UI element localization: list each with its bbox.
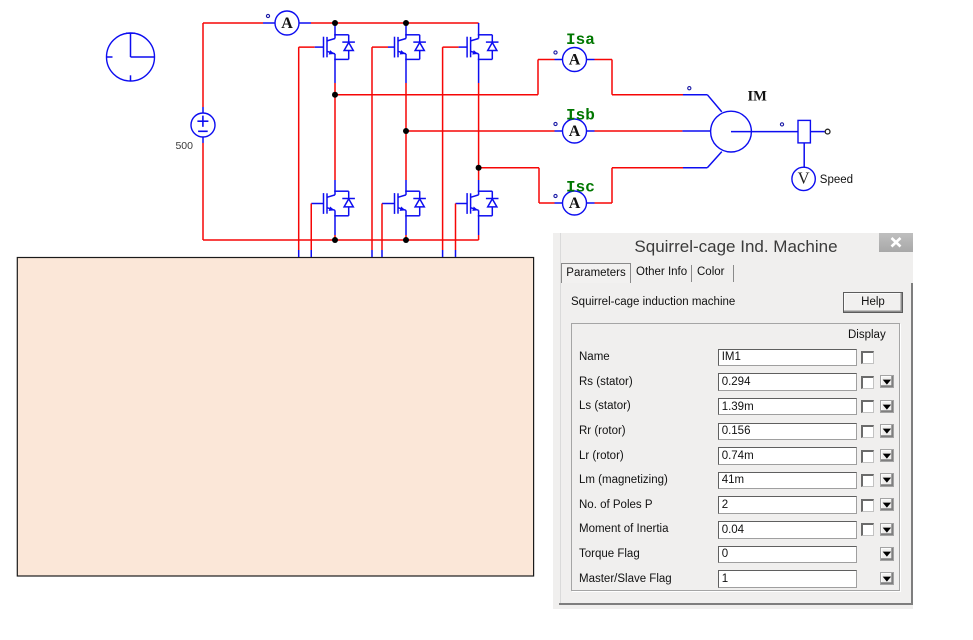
svg-text:Isa: Isa (566, 31, 595, 49)
svg-text:V: V (798, 169, 810, 188)
svg-text:Isb: Isb (566, 107, 595, 125)
svg-text:Isc: Isc (566, 179, 595, 197)
svg-text:A: A (569, 195, 581, 212)
svg-text:Speed: Speed (820, 174, 853, 186)
svg-text:A: A (569, 52, 581, 69)
svg-text:500: 500 (175, 140, 193, 152)
svg-text:A: A (281, 15, 293, 32)
svg-text:A: A (569, 123, 581, 140)
svg-text:IM: IM (748, 89, 768, 105)
